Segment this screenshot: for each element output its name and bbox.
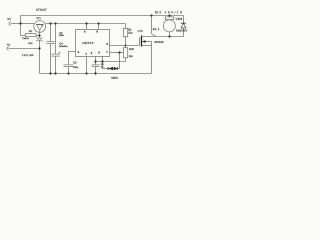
wire C3 column bottom [50,44,52,74]
transistor VT1 emitter arrowhead [41,25,42,27]
motor M3 circle [163,20,175,32]
mosfet VT2 channel bar [141,35,143,46]
svg-text:5: 5 [78,50,80,54]
svg-text:VT1: VT1 [36,17,41,20]
wire pin2 node to timing capacitor C6 [95,62,97,65]
wire pin4 stub [86,24,88,30]
mosfet VT2 substrate arrow stub [145,41,152,43]
node dot C3 bottom rail [49,72,51,74]
svg-text:R33: R33 [129,48,134,51]
svg-text:HER507: HER507 [176,29,188,33]
resistor R3 [124,29,128,37]
diode VD2 [107,67,109,70]
wire VD6 top from rail [183,16,185,24]
IC U1 NE555 box [76,30,110,57]
contact K2.1 stub from rail [151,16,153,34]
svg-text:7: 7 [106,50,108,54]
wire VD6 bottom to drain wire [183,28,185,37]
svg-text:К2.1: К2.1 [153,27,160,31]
svg-text:4: 4 [84,29,86,33]
mosfet VT2 drain stub / drain wire [142,36,184,38]
node dot pin2 [94,60,96,62]
node dot motor rail [168,14,170,16]
wire C6 bottom [95,67,97,74]
svg-text:22к: 22к [129,55,134,58]
svg-text:X1: X1 [7,17,11,21]
capacitor C3 [47,42,55,44]
wire motor bottom to drain wire [169,32,171,37]
wire source down to ground rail [151,42,153,74]
svg-text:R1: R1 [29,30,33,33]
node dot pin8 rail [97,22,99,24]
wire riser X1 node to top rail [20,16,22,24]
node dot C6 bottom rail [94,72,96,74]
node dot C5 bottom rail [67,72,69,74]
transistor VT1 base bar [36,24,44,26]
wire pin3 node to pot top [125,46,127,48]
wire pin6 node down to diode branch [103,62,108,69]
node dot R1 base [38,34,40,36]
node dot motor drain [168,35,170,37]
svg-text:1: 1 [85,51,87,55]
capacitor C4 [52,54,61,56]
resistor R1 [26,34,37,37]
terminal X1 [9,22,11,25]
node dot pin7 wiper [118,51,120,53]
node dot K2.1 rail [150,14,152,16]
svg-text:100н: 100н [73,66,79,69]
svg-text:7,5кОм: 7,5кОм [22,37,29,40]
transistor VT1 circle [34,21,46,33]
diode VD6 cathode bar [181,22,186,24]
wire VT1 emitter to rail2 [46,23,126,25]
wire motor drop [169,16,171,17]
node dot C4 top [54,22,56,24]
wire ground node down to bottom rail [39,49,41,74]
terminal X2 [7,47,9,50]
wire pin6 stub down [102,57,104,62]
svg-text:3: 3 [106,42,108,46]
wire rail2 corner down to R3 [125,24,127,29]
node dot X1/A [19,22,21,24]
transistor VT1 emitter slant [40,25,43,30]
svg-text:VD6: VD6 [176,17,183,21]
diode VD6 triangle [181,23,186,28]
svg-text:IRF540: IRF540 [154,40,164,44]
wire diode branch up to pin7 node [118,53,120,69]
svg-text:100н: 100н [59,34,65,37]
wire zener to X2 node [39,41,41,49]
wire pot bottom to node wire [125,58,127,62]
node dot pin6 [101,60,103,62]
mosfet VT2 source stub [142,45,152,47]
diode VD3 [114,67,117,70]
wire between diodes [113,68,114,70]
transistor VT1 collector slant [37,25,40,30]
wire C5 bottom [68,67,70,74]
node dot C4 bottom rail [54,72,56,74]
svg-text:2,2к: 2,2к [128,32,133,35]
svg-text:2: 2 [91,51,93,55]
svg-text:+: + [58,51,60,55]
wire top rail +24V [21,15,184,17]
wire node A down to R1 [21,24,26,36]
svg-text:12V1,3W: 12V1,3W [22,54,34,57]
potentiometer R4 [124,48,128,58]
zener VD1 cathode bar with hooks [36,40,43,42]
wire R1 to base node [36,35,40,37]
node dot pin3 cross [125,45,127,47]
motor M3 brush box [165,17,173,20]
wire VT1 collector [21,23,34,25]
svg-text:100м63в: 100м63в [59,45,69,48]
svg-text:КТ815Г: КТ815Г [36,8,47,12]
wire pins 2-6 node [96,61,126,63]
svg-text:VT2: VT2 [138,30,143,33]
wire X2 to ground node [9,48,40,50]
wire C3 column top [50,24,52,42]
node dot C3 top [49,22,51,24]
capacitor C5 [64,65,74,67]
wire pin2 stub down [95,57,97,62]
wire R3 bottom to pin3 line [125,37,127,46]
svg-text:8: 8 [96,29,98,33]
svg-text:М3 24V/1А: М3 24V/1А [155,11,183,15]
svg-text:NE555: NE555 [82,41,93,45]
wire X1 to node A [11,23,21,25]
wire pin7 to pot wiper [110,52,124,54]
zener VD1 triangle [37,38,42,41]
wire pin8 stub [98,24,100,30]
wire pin3 output [110,45,140,47]
wire pin1 to ground rail [86,57,88,74]
svg-text:X2: X2 [7,44,11,47]
wire VT1 base lead [39,30,41,38]
mosfet VT2 arrowhead [142,40,146,42]
svg-text:6: 6 [98,51,100,55]
capacitor C6 [92,65,100,67]
node dot pin1 rail [85,72,87,74]
wire C4 column top [55,24,57,54]
wire bottom ground rail [40,73,152,75]
svg-text:VD1: VD1 [28,42,33,45]
contact K2.1 blade [152,34,156,36]
wire pin5 to C5 [69,52,76,65]
mosfet VT2 gate bar [139,37,141,45]
node dot pin4 rail [85,22,87,24]
svg-text:C5: C5 [73,62,77,65]
svg-text:КД521: КД521 [111,76,118,79]
wire C4 column bottom [55,56,57,73]
node dot X2 ground [38,47,40,49]
